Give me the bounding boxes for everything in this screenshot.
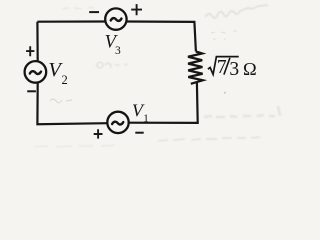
- source V2 tilde: [30, 71, 41, 74]
- source V3 tilde: [111, 18, 122, 21]
- source V1 circle: [107, 112, 128, 133]
- minus sign below V2: [27, 90, 36, 92]
- svg-text:1: 1: [143, 112, 149, 124]
- page background: [0, 0, 284, 153]
- svg-text:3: 3: [229, 59, 239, 80]
- minus sign right of V1: [135, 132, 143, 134]
- plus sign above V2: [26, 46, 34, 56]
- resistor value label: radical sign: [208, 57, 239, 75]
- wire: top-left to V3 left: [37, 20, 105, 22]
- wire: V2 top to top-left corner: [36, 22, 38, 62]
- source V1 tilde: [112, 122, 123, 125]
- source V3 circle: [105, 8, 126, 29]
- svg-text:3: 3: [115, 45, 121, 57]
- resistor R zigzag: [188, 52, 203, 84]
- wire: V1 left to bottom-left corner up to V2 bottom: [37, 82, 107, 124]
- minus sign left of V3: [89, 11, 99, 13]
- svg-text:7: 7: [217, 57, 227, 78]
- wire: V3 right to top-right corner, down right side: [126, 22, 195, 52]
- plus sign below-left of V1: [94, 129, 103, 138]
- source V2 circle: [25, 61, 47, 83]
- wire: resistor bottom to bottom-right corner to V1 right: [129, 82, 198, 123]
- svg-text:Ω: Ω: [243, 59, 257, 79]
- plus sign right of V3: [131, 4, 142, 15]
- resistor value label: slash: [224, 58, 230, 75]
- svg-text:2: 2: [62, 73, 68, 87]
